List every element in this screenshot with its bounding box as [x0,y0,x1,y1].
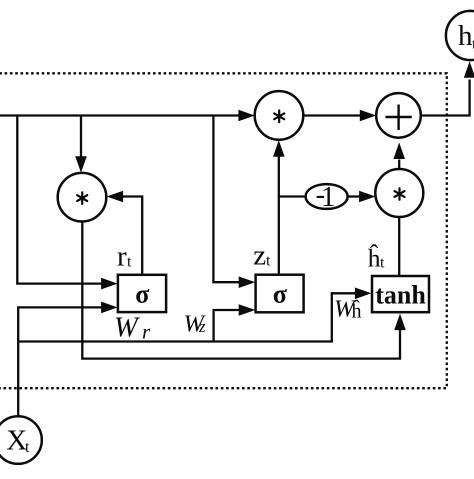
svg-text:ĥ: ĥ [368,244,381,273]
svg-text:r: r [142,320,151,344]
svg-text:z: z [253,240,266,272]
svg-text:t: t [380,255,385,272]
svg-text:t: t [25,439,30,456]
svg-text:t: t [127,253,132,270]
svg-text:t: t [266,253,271,270]
svg-text:tanh: tanh [375,281,426,310]
svg-text:r: r [117,240,127,272]
svg-text:ĥ: ĥ [352,299,362,323]
svg-text:z: z [198,317,206,336]
svg-text:σ: σ [135,279,149,308]
svg-text:σ: σ [273,279,287,308]
svg-text:W: W [114,313,140,344]
svg-text:h: h [458,20,473,52]
svg-text:1: 1 [321,181,336,213]
